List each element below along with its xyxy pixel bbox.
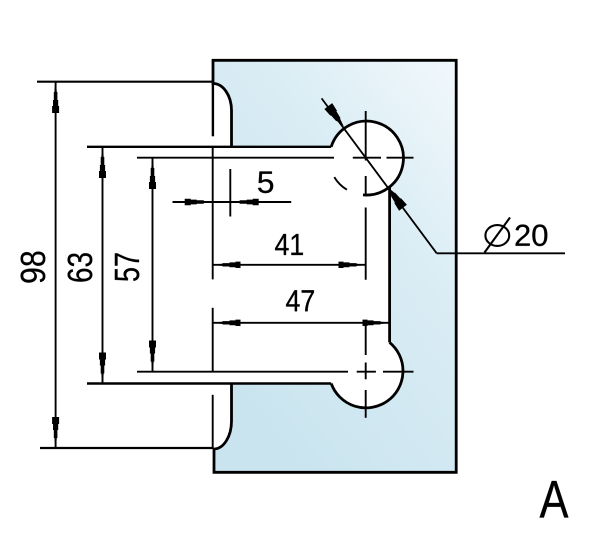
dimension 57 [152,158,154,372]
top hole vertical center line [365,111,367,280]
glass panel with edge notch [213,60,456,472]
extension line 98 bottom [40,447,214,449]
hinge plate body (white fill over glass) [213,121,404,408]
extension line for 5 dim [229,169,231,217]
arrowhead 5 right [231,199,259,205]
leader arrow at top (pointing into circle, down-right) [324,103,343,126]
bottom hole horizontal center line [137,371,414,373]
arrowhead 98 bottom [52,417,59,448]
bottom hole vertical center line [365,324,367,418]
plate bottom edge with extension [87,382,331,384]
dim text 57 [115,253,139,281]
diameter symbol circle [485,225,509,246]
top lobe / hole circle thick arc [331,121,403,195]
arrowhead 57 bottom [149,341,156,372]
extension line 98 top [37,81,214,83]
dim text 98 [21,252,46,283]
dim text 63 [68,253,93,281]
dim text 5 [258,172,273,194]
dimension 98 [55,82,57,448]
diameter text 20 [516,225,548,247]
dimension 5 [173,201,292,203]
extension line at plate left edge [212,148,214,448]
bottom lobe thick arc [331,342,403,407]
glass edge straight segment beside notch [212,82,214,136]
top hole hidden-edge thin arc [334,177,347,190]
arrowhead 63 bottom [99,353,106,384]
arrowhead 63 top [99,147,106,178]
arrowhead 41 right [339,262,366,268]
dimension 63 [102,147,104,384]
diameter leader line [322,98,437,253]
arrowhead 5 left [185,199,213,205]
view label A [540,481,569,518]
diameter symbol slash [485,218,511,253]
arrowhead 98 top [52,82,59,113]
dimension 47 [214,322,390,324]
dim text 47 [286,290,314,311]
arrowhead 41 left [214,262,241,268]
top hole horizontal center line [137,157,414,159]
plate right edge [388,187,391,343]
arrowhead 57 top [149,158,156,189]
arrowhead 47 right [363,320,390,326]
dim text 41 [275,234,303,255]
arrowhead 47 left [214,320,241,326]
dimension 41 [214,264,366,266]
plate top edge with extension [87,146,331,148]
leader arrow at bottom (pointing into circle, up-left) [388,188,407,211]
